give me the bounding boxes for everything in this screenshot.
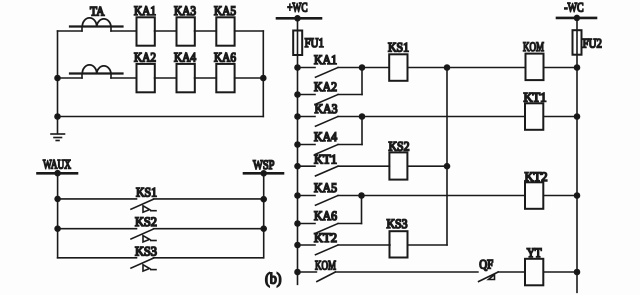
- bus WAUX: [38, 172, 78, 175]
- svg-text:KA1: KA1: [314, 52, 337, 67]
- label KT1: [524, 90, 547, 105]
- label KOM: [523, 39, 544, 54]
- label KA4: [174, 50, 196, 65]
- node: KA6 row on positive rail: [295, 221, 300, 226]
- svg-text:KT1: KT1: [314, 151, 337, 166]
- ground: [51, 117, 65, 141]
- wire: KT2 coil to negative rail: [543, 195, 577, 197]
- node: -WC tap: [574, 15, 579, 20]
- svg-text:KA1: KA1: [134, 3, 156, 18]
- contact KT1: [298, 166, 390, 176]
- wire: right vertical from WSP: [263, 173, 265, 258]
- svg-text:QF: QF: [479, 257, 493, 272]
- svg-text:KA3: KA3: [174, 3, 196, 18]
- wire: KS1 coil to tie node: [408, 67, 448, 69]
- contact KS2 (signal relay contact): [58, 229, 264, 242]
- label KA6: [214, 50, 236, 65]
- relay coil KS1: [389, 54, 407, 81]
- wire: KOM coil to negative rail: [543, 67, 577, 69]
- label KA2: [314, 79, 337, 94]
- wire: junction to KS1 coil: [362, 67, 389, 69]
- wire: row1 TA to KA1: [111, 30, 137, 32]
- label KA1: [134, 3, 156, 18]
- label KT1: [314, 151, 337, 166]
- node: KA3 row on positive rail: [295, 114, 300, 119]
- svg-text:YT: YT: [527, 245, 542, 260]
- trip coil YT: [525, 259, 543, 286]
- node: YT row on negative rail: [575, 270, 580, 275]
- wire: right vertical of CT loop: [262, 31, 264, 117]
- svg-text:KA6: KA6: [214, 50, 236, 65]
- wire: KA3 row to KT1 coil: [362, 116, 525, 118]
- svg-text:FU1: FU1: [305, 35, 324, 50]
- node: row2 on left rail: [55, 76, 60, 81]
- svg-text:KA3: KA3: [315, 101, 338, 116]
- fuse FU1: [293, 31, 302, 56]
- svg-text:KA4: KA4: [174, 50, 196, 65]
- node: KOM row on negative rail: [575, 65, 580, 70]
- wire: row2 KA4 to KA6: [195, 77, 217, 79]
- label +WC: [287, 0, 307, 15]
- svg-text:KS1: KS1: [136, 184, 157, 199]
- svg-text:FU2: FU2: [583, 36, 602, 51]
- contact KA4: [298, 145, 363, 155]
- wire: tie line vertical: [446, 68, 448, 246]
- node: KA1/KA2 junction: [360, 65, 365, 70]
- relay coil KS2: [389, 152, 407, 179]
- bus WSP: [244, 172, 283, 175]
- svg-text:KS3: KS3: [135, 243, 157, 258]
- node: WAUX bus tap: [55, 171, 60, 176]
- label (b): [265, 271, 282, 288]
- svg-text:KS2: KS2: [389, 138, 410, 153]
- relay coil KOM: [526, 54, 544, 81]
- label FU2: [583, 36, 602, 51]
- contact KT2: [298, 245, 391, 255]
- relay coil KA1: [137, 17, 155, 45]
- node: +WC tap: [295, 16, 300, 21]
- wire: KA4 riser to KA3 row: [361, 117, 363, 145]
- contact KA2: [298, 95, 363, 105]
- label KA6: [314, 208, 337, 223]
- label KA5: [214, 3, 236, 18]
- wire: KS3 coil to tie line corner: [408, 244, 448, 246]
- node: KS2 row left: [55, 226, 60, 231]
- node: KS1 row right: [261, 197, 266, 202]
- wire: bottom return of CT loop: [58, 116, 264, 118]
- node: KA5/KA6 junction: [359, 193, 364, 198]
- svg-text:KA6: KA6: [314, 208, 337, 223]
- contact KA5: [298, 196, 362, 206]
- svg-text:KT1: KT1: [524, 90, 547, 105]
- svg-text:KA5: KA5: [314, 180, 337, 195]
- relay coil KT2: [525, 182, 543, 209]
- label KA3: [174, 3, 196, 18]
- node: WSP bus tap: [261, 171, 266, 176]
- label KS1: [136, 184, 157, 199]
- node: KS2 row right: [261, 226, 266, 231]
- wire: KA2 riser to KA1 row: [361, 68, 363, 95]
- wire: KT1 coil to negative rail: [543, 116, 577, 118]
- wire: row1 left segment to TA: [58, 30, 83, 32]
- svg-text:KS2: KS2: [135, 214, 157, 229]
- label YT: [527, 245, 542, 260]
- svg-text:KOM: KOM: [315, 258, 336, 273]
- label KA5: [314, 180, 337, 195]
- contact KA1: [298, 68, 363, 78]
- label KS2: [135, 214, 157, 229]
- wire: row1 KA5 to right vertical: [235, 30, 264, 32]
- wire: negative rail: [576, 18, 578, 292]
- label KA1: [314, 52, 337, 67]
- relay coil KA6: [216, 64, 234, 92]
- contact QF (breaker auxiliary): [479, 272, 525, 282]
- wire: row2 KA2 to KA4: [155, 77, 177, 79]
- node: ground junction: [55, 114, 60, 119]
- node: tie line top: [445, 65, 450, 70]
- wire: KA6 riser to KA5 row: [361, 196, 363, 224]
- label KS1: [388, 40, 409, 55]
- wire: YT coil to negative rail: [543, 271, 577, 273]
- svg-text:+WC: +WC: [287, 0, 307, 15]
- wire: KS2 coil to tie line: [407, 165, 447, 167]
- fuse FU2: [573, 30, 582, 55]
- label KT2: [314, 230, 337, 245]
- label QF: [479, 257, 493, 272]
- contact KS1 (signal relay contact): [58, 199, 264, 212]
- label KA3: [315, 101, 338, 116]
- relay coil KA5: [216, 17, 234, 45]
- svg-text:KA5: KA5: [214, 3, 236, 18]
- node: KA4 row on positive rail: [295, 142, 300, 147]
- svg-text:WAUX: WAUX: [43, 157, 71, 172]
- relay coil KS3: [390, 231, 408, 257]
- svg-text:KOM: KOM: [523, 39, 544, 54]
- node: KT1 contact row on positive rail: [295, 164, 300, 169]
- current transformer TA (upper winding): [70, 18, 123, 31]
- wire: row1 KA3 to KA5: [195, 30, 217, 32]
- node: row2 on right vertical: [261, 76, 266, 81]
- label KOM: [315, 258, 336, 273]
- svg-text:TA: TA: [90, 4, 105, 19]
- wire: row2 left segment to TA lower: [58, 77, 83, 79]
- wire: KA5 row to KT2 coil: [362, 195, 526, 197]
- svg-text:WSP: WSP: [253, 157, 275, 172]
- label WSP: [253, 157, 275, 172]
- node: KA3/KA4 junction: [360, 114, 365, 119]
- contact KA3: [298, 117, 363, 127]
- svg-text:KA2: KA2: [314, 79, 337, 94]
- label FU1: [305, 35, 324, 50]
- svg-text:KS3: KS3: [387, 216, 408, 231]
- relay coil KA2: [137, 64, 155, 92]
- node: KT2 row on negative rail: [575, 193, 580, 198]
- node: KOM contact row on positive rail: [295, 270, 300, 275]
- wire: row2 TA to KA2: [111, 77, 137, 79]
- label KA2: [134, 50, 156, 65]
- relay coil KA4: [177, 64, 195, 92]
- contact KS3 (signal relay contact): [58, 258, 264, 271]
- wire: row1 KA1 to KA3: [155, 30, 177, 32]
- label KS3: [135, 243, 157, 258]
- node: KA5 row on positive rail: [295, 193, 300, 198]
- svg-text:KA4: KA4: [314, 129, 337, 144]
- svg-text:KT2: KT2: [525, 169, 548, 184]
- wire: tie node to KOM coil: [447, 67, 525, 69]
- bus -WC: [557, 17, 596, 20]
- wire: left vertical from WAUX: [57, 173, 59, 258]
- svg-text:KA2: KA2: [134, 50, 156, 65]
- svg-text:KT2: KT2: [314, 230, 337, 245]
- label -WC: [564, 0, 583, 15]
- current transformer TA (lower winding): [70, 65, 123, 78]
- relay coil KA3: [177, 17, 195, 45]
- contact KA6: [298, 224, 362, 234]
- node: KA1 row on positive rail: [295, 65, 300, 70]
- label KT2: [525, 169, 548, 184]
- svg-text:KS1: KS1: [388, 40, 409, 55]
- wire: positive rail: [297, 18, 299, 284]
- svg-text:(b): (b): [265, 271, 282, 288]
- wire: row2 KA6 to right vertical: [235, 77, 264, 79]
- label KS3: [387, 216, 408, 231]
- label KS2: [389, 138, 410, 153]
- node: KS1 row left: [55, 196, 60, 201]
- node: KT1 row on negative rail: [575, 114, 580, 119]
- bus +WC: [277, 17, 321, 20]
- label TA: [90, 4, 105, 19]
- label WAUX: [43, 157, 71, 172]
- relay coil KT1: [525, 103, 543, 130]
- node: KT2 contact row on positive rail: [295, 243, 300, 248]
- contact KOM: [298, 272, 478, 282]
- svg-text:-WC: -WC: [564, 0, 583, 15]
- wire: left rail of CT loop: [57, 31, 59, 117]
- node: KA2 row on positive rail: [295, 92, 300, 97]
- label KA4: [314, 129, 337, 144]
- node: tie line KS2: [445, 164, 450, 169]
